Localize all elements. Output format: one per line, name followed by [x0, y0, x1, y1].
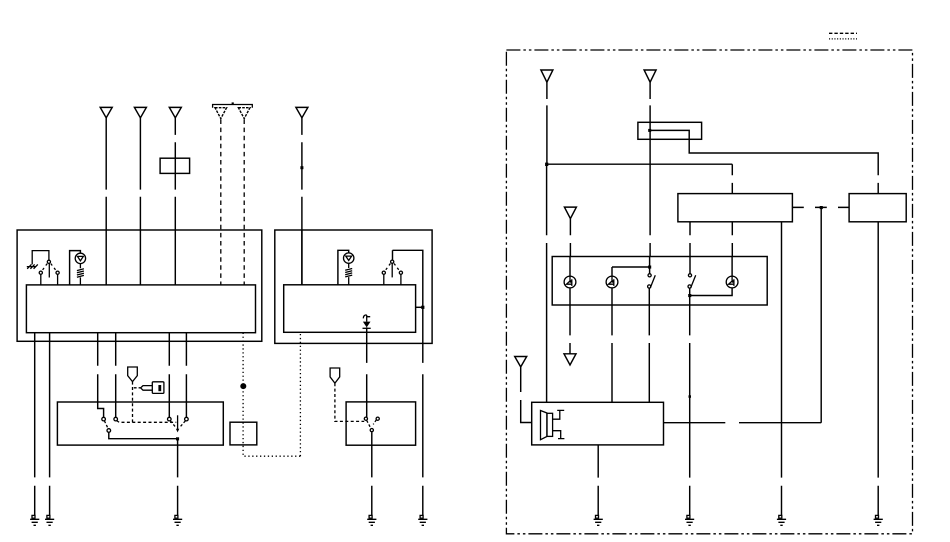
SW1 contact circle a [102, 417, 106, 421]
switch S2 blade [391, 264, 393, 278]
diode D1 triangle [363, 322, 371, 328]
wire from B2 [649, 82, 651, 256]
diode D1 cathode bar [363, 327, 371, 329]
switch S1 contact R [56, 271, 59, 274]
connector triangle A1 [100, 107, 112, 117]
bracket center tick [232, 102, 234, 104]
SW1 right blade arrowhead [176, 429, 179, 433]
SW1 output wire to ground [177, 439, 179, 516]
lamp L1 coil [77, 264, 84, 285]
wire from A1 [105, 118, 107, 285]
connector box C1 [230, 422, 257, 445]
lamp L5 bulb [726, 276, 738, 288]
SW1 common wire to junction [109, 432, 178, 438]
junction dot on link [820, 206, 823, 209]
junction dot switch S3 top [648, 266, 651, 269]
connector triangle A3 [169, 107, 181, 117]
control unit U1 outer box [17, 230, 262, 341]
switch S2 contact L [382, 271, 385, 274]
splice square on S4 ground wire [689, 395, 692, 398]
lamp L5 wire up [731, 257, 733, 277]
connector triangle B2 [644, 70, 656, 82]
S4 wire down to ground [689, 296, 691, 516]
SW1 dashed linkage [117, 421, 177, 423]
switch S1 contact stubs [41, 275, 58, 285]
lamp L4 bulb [606, 276, 618, 288]
switch S4 wire [689, 257, 691, 274]
lamp L3 below wire [569, 288, 571, 354]
key symbol K1 slot [158, 385, 161, 391]
SW2 dashed blades [367, 420, 377, 429]
switch S2 contact stubs [384, 275, 401, 285]
switch S3 blade [650, 275, 655, 288]
lamp L2 filament triangle [346, 256, 352, 260]
ground G7 [685, 515, 694, 525]
ground G3 [173, 515, 182, 525]
fuse box F1 on wire A3 [160, 158, 190, 173]
dash-dot harness border [506, 50, 912, 534]
switch S1 inside U1 [32, 251, 49, 265]
dashed wire from A4 [220, 120, 222, 285]
connector triangle B3 small [564, 207, 576, 219]
U2 inner box tap to right rail [416, 306, 423, 308]
wire from B3 to lamp box [569, 219, 571, 257]
lamp L4 branch wire [612, 267, 650, 276]
diode D1 hook [363, 315, 370, 319]
wire U1 to combo switch contact 1 [98, 333, 104, 418]
lamp L2 feed inside U2 [338, 250, 349, 284]
wire U1 to combo switch contact 4 [185, 333, 187, 418]
relay unit U2 inner box [284, 285, 416, 333]
wires out of U1 to grounds [35, 333, 50, 516]
wire B1 down to horn box [546, 164, 548, 402]
connector triangle B1 [541, 70, 553, 82]
connector triangle B5 small [515, 357, 527, 367]
lamp L3 wire [569, 257, 571, 277]
control unit U1 inner box [26, 285, 255, 333]
R1 output wires [690, 222, 732, 257]
splice square on wire A6 [300, 166, 303, 169]
key lock pentagon P2 [330, 368, 340, 383]
SW1 right blade vertical [177, 415, 179, 429]
ground G2 [45, 515, 54, 525]
ground G8 [777, 515, 786, 525]
key dashed link [134, 387, 141, 389]
connector triangle A2 [134, 107, 146, 117]
ground G1 [30, 515, 39, 525]
combo switch box SW1 [57, 402, 223, 445]
switch S4 output wire [689, 288, 691, 295]
connector triangle A6 [296, 107, 308, 117]
indicator cluster box U3 [552, 257, 767, 306]
connector triangle B4 small [564, 354, 576, 365]
SW1 common circle c [107, 429, 111, 433]
right rail wire to ground [422, 307, 424, 515]
diode D1 lead [366, 315, 368, 322]
switch S4 top contact [688, 274, 691, 277]
switch S2 contact R [399, 271, 402, 274]
ground G5 [418, 515, 427, 525]
lamp L2 bulb [344, 253, 354, 263]
legend dotted wire sample [829, 38, 857, 40]
wire from A6 [301, 118, 303, 285]
switch S4 blade [691, 275, 696, 288]
SW1 contact circle b [114, 417, 118, 421]
chassis ground hatch inside U1 [27, 264, 38, 268]
switch S3 output wire to horn box [648, 288, 650, 402]
splice dot on dotted wire [240, 383, 246, 389]
horn terminal bottom [553, 431, 565, 439]
lamp L3 bulb [564, 276, 576, 288]
ground G4 [367, 515, 376, 525]
lamp L5 filament [729, 276, 734, 286]
lamp L3 filament [567, 276, 572, 286]
horn box U4 [532, 402, 664, 445]
legend dashed wire sample [829, 32, 857, 34]
junction dot S4 output [688, 294, 691, 297]
lamp L1 bulb [75, 253, 85, 263]
SW1 right contact circle d [168, 417, 172, 421]
wire from A2 [139, 118, 141, 285]
wire from B5 to horn box [521, 367, 532, 423]
switch S1 contact L [39, 271, 42, 274]
lamp L4 below wire to horn box [611, 288, 613, 402]
connector box C2 [638, 122, 702, 139]
switch S1 pivot circle [47, 260, 50, 263]
SW2 output wire to ground [371, 432, 373, 515]
SW2 contact circle a [364, 417, 367, 420]
junction dot B1 feed [545, 163, 548, 166]
junction dot in C2 [648, 129, 651, 132]
wire U1 to combo switch contact 3 [168, 333, 170, 418]
switch S2 feed inside U2 [393, 250, 423, 307]
dashed link R1-R2 [792, 206, 849, 208]
branch S4 to lamp L5 [690, 288, 732, 296]
wire from link down to horn feed [820, 208, 822, 423]
switch S4 bottom contact [688, 285, 691, 288]
switch S3 wire [649, 257, 651, 274]
dotted wire from U1 inner box [243, 332, 300, 456]
key symbol K1 head [152, 382, 164, 394]
ground G9 [874, 515, 883, 525]
SW2 contact circle b [376, 417, 379, 420]
switch S1 blade [48, 264, 50, 278]
dashed wire from A5 [243, 120, 245, 285]
SW1 dashed blade a-c [104, 421, 108, 429]
diode D1 output wire [366, 327, 368, 417]
lamp L1 feed inside U1 [70, 251, 81, 285]
SW2 common circle c [370, 429, 373, 432]
wire from B1 [546, 82, 548, 164]
branch from C2 to right [650, 130, 878, 193]
horn box right feed wire [664, 422, 822, 424]
relay unit U2 outer box [275, 230, 432, 343]
horn box output to ground [597, 445, 599, 516]
relay box R1 [678, 194, 793, 222]
junction dot SW1 output [176, 437, 179, 440]
horn symbol cone [541, 411, 547, 440]
lamp L2 coil [345, 263, 352, 285]
mechanical dashed link from P1 [132, 382, 134, 423]
mechanical dashed link from P2 [335, 383, 364, 421]
horn symbol body [547, 413, 553, 436]
switch S2 pivot circle [391, 260, 394, 263]
switch box SW2 [346, 402, 416, 445]
connector triangle A5 (dashed) [238, 108, 250, 119]
ground G6 [594, 515, 603, 525]
bracket over connectors A4 A5 [213, 105, 253, 108]
junction dot right rail U2 [421, 306, 424, 309]
switch S2 dashed throws [385, 264, 400, 271]
key lock pentagon P1 [128, 367, 138, 382]
feed rail horizontal [547, 163, 733, 165]
horn terminal top [553, 410, 565, 419]
branch down to relay box B4 [731, 164, 733, 193]
switch S1 dashed throws [42, 264, 57, 271]
connector triangle A4 (dashed) [215, 108, 227, 119]
lamp L4 filament [609, 276, 614, 286]
wire A6 continues into U2 [301, 230, 303, 285]
wire from A3 [174, 118, 176, 285]
wire U1 to combo switch contact 2 [115, 333, 117, 418]
SW1 right contact circle e [185, 417, 189, 421]
lamp L1 bulb filament triangle [78, 256, 84, 260]
switch S3 bottom contact [648, 285, 651, 288]
SW1 right dashed throws [170, 421, 185, 427]
switch S3 top contact [648, 274, 651, 277]
key symbol K1 [141, 386, 153, 391]
relay box R2 [849, 194, 906, 222]
R2 output wire to ground [877, 222, 879, 516]
R1 output wire to ground [781, 222, 783, 516]
